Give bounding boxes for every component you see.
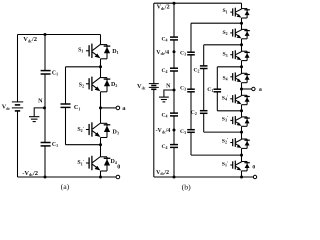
battery Vdc (b) (149, 84, 159, 90)
wire (b) emitter riser S3' (241, 126, 243, 132)
wire (b) C3 column seg1 (190, 23, 192, 52)
wire (b) C2 column seg1 (203, 45, 205, 66)
wire (a) S1' collector riser (100, 145, 102, 157)
wire (b) C3 column seg2 (190, 55, 192, 89)
wire (a) S2 emitter to output (100, 92, 102, 108)
caption (a) (61, 182, 70, 191)
wire (a) dc-bus upper segment (44, 35, 46, 71)
IGBT S3 (b) with anti-parallel diode (230, 50, 250, 60)
IGBT S3' (b) with anti-parallel diode (230, 116, 250, 126)
wire (b) collector riser S4 (241, 67, 243, 74)
label S1 (a) (78, 47, 83, 53)
junction dot j1 (a) (99, 65, 102, 68)
junction dot j2 (b) (240, 43, 243, 46)
node N (a) (38, 97, 46, 109)
wire (b) dc-bus segment 4 (173, 116, 175, 145)
capacitor C3 (b) #1 (180, 50, 195, 56)
wire (b) dc-bus segment 5 (173, 147, 175, 177)
wire (b) clamp wire j1 (191, 22, 242, 24)
label S2 (a) (79, 82, 84, 88)
label S3 (b) (222, 52, 227, 58)
IGBT S1' (b) with anti-parallel diode (230, 161, 250, 171)
IGBT S2' (b) with anti-parallel diode (230, 138, 250, 148)
wire (a) top rail Vdc/2 (18, 34, 101, 36)
wire (b) collector riser S2 (241, 23, 243, 30)
caption (b) (182, 182, 191, 191)
node dot (b) top rail / bus (173, 2, 176, 5)
wire (a) output stub (101, 107, 117, 109)
wire (a) bottom rail (18, 176, 117, 178)
terminal a (a) (116, 105, 126, 112)
svg-text:(b): (b) (182, 182, 191, 191)
junction dot j1 (b) (240, 22, 243, 25)
IGBT S2' (a) with anti-parallel diode D3 (86, 122, 110, 137)
wire (b) bottom rail (154, 176, 253, 178)
capacitor C4 (b) #2 (162, 68, 179, 74)
label S1' (b) (222, 160, 228, 167)
wire (a) S2'-S1' junction segment (100, 138, 102, 145)
wire (a) flying-cap column upper (65, 67, 67, 104)
label Vdc/2 (b) bottom (156, 170, 169, 176)
wire (b) top rail Vdc/2 (154, 2, 242, 4)
wire (a) clamp wire j1 (66, 66, 101, 68)
label S2 (b) (222, 30, 227, 36)
wire (b) C2 column seg3 (203, 113, 205, 132)
wire (a) flying-cap column lower (65, 107, 67, 144)
label S1' (a) (77, 159, 84, 166)
capacitor C3 (b) #3 (180, 129, 195, 135)
label S4 (b) (222, 76, 227, 82)
wire (b) C1 column seg1 (216, 67, 218, 89)
label D3 (a) (113, 130, 119, 136)
wire (a) S2' collector riser (100, 108, 102, 124)
IGBT S1' (a) with anti-parallel diode D4 (86, 156, 110, 171)
svg-text:a: a (259, 87, 262, 93)
node Vdc/4 (b) (156, 50, 175, 56)
capacitor C4 (b) #1 (162, 36, 179, 42)
wire (a) S2 collector riser (100, 67, 102, 78)
terminal 0 (a) (116, 164, 120, 178)
wire (a) left rail upper (17, 35, 19, 102)
node dot (a) top rail / bus (44, 33, 47, 36)
wire (b) collector riser S1 (241, 3, 243, 9)
label D2 (a) (111, 82, 117, 88)
capacitor C1 (b) (207, 87, 221, 93)
junction dot j3 (b) (240, 65, 243, 68)
wire (a) clamp wire j1' (66, 144, 101, 146)
junction dot j1' (a) (99, 143, 102, 146)
wire (a) S1' emitter to bottom rail (100, 171, 102, 177)
svg-text:0: 0 (252, 165, 255, 171)
capacitor C1 (a) lower bus (41, 142, 58, 148)
svg-text:0: 0 (117, 164, 120, 170)
node N (b) (166, 84, 175, 92)
wire (b) left rail lower (153, 89, 155, 177)
wire (b) collector riser S1' (241, 155, 243, 162)
capacitor C1 (a) upper bus (41, 70, 58, 76)
label S2' (b) (222, 137, 228, 144)
wire (b) output stub (242, 88, 252, 90)
junction dot jb (b) (240, 176, 243, 179)
ground (b) (159, 90, 174, 102)
wire (b) clamp wire j3' (217, 110, 241, 112)
terminal 0 (b) (252, 165, 256, 179)
wire (b) clamp wire j2' (204, 131, 242, 133)
capacitor C3 (b) #2 (180, 85, 195, 91)
capacitor C4 (b) #3 (162, 112, 179, 118)
wire (b) dc-bus segment 1 (173, 3, 175, 37)
wire (b) emitter riser S3 (241, 61, 243, 67)
wire (b) emitter riser S4 (241, 83, 243, 89)
label D1 (a) (112, 49, 118, 55)
junction dot (a) bottom rail / switch leg (99, 176, 102, 179)
node -Vdc/4 (b) (156, 128, 176, 134)
wire (b) collector riser S3' (241, 111, 243, 118)
terminal a (b) (252, 87, 262, 93)
capacitor C2 (b) #2 (191, 110, 208, 116)
label S4' (b) (222, 94, 228, 101)
node dot (b) bottom rail / bus (173, 176, 176, 179)
label Vdc source (b) (137, 83, 146, 90)
svg-text:N: N (166, 84, 171, 90)
svg-text:(a): (a) (61, 182, 70, 191)
wire (a) left rail lower (17, 111, 19, 177)
wire (b) left rail upper (153, 3, 155, 83)
capacitor C1 (a) flying (61, 104, 81, 111)
IGBT S4 (b) with anti-parallel diode (230, 72, 250, 82)
label S2' (a) (77, 126, 84, 133)
wire (b) emitter riser S4' (241, 105, 243, 111)
junction dot output a (99, 106, 102, 109)
wire (b) emitter riser S2 (241, 39, 243, 45)
label Vdc/2 (b) top (157, 5, 170, 11)
IGBT S2 (a) with anti-parallel diode D2 (86, 77, 110, 92)
wire (a) collector riser S1 (100, 35, 102, 45)
capacitor C4 (b) #4 (162, 144, 179, 150)
wire (b) dc-bus segment 2 (173, 40, 175, 68)
wire (b) dc-bus segment 3 (173, 71, 175, 113)
label -Vdc/2 (a) (22, 170, 38, 177)
wire (a) dc-bus middle segment (44, 74, 46, 143)
wire (b) clamp wire j1' (191, 154, 242, 156)
wire (b) clamp wire j2 (204, 44, 242, 46)
node dot (a) bottom rail / bus (44, 176, 47, 179)
label S1 (b) (222, 8, 227, 14)
wire (b) C3 column seg4 (190, 132, 192, 155)
wire (b) C2 column seg2 (203, 69, 205, 111)
junction dot j3p (b) (240, 109, 243, 112)
label D4 (a) (111, 159, 117, 165)
wire (b) clamp wire j3 (217, 66, 241, 68)
label S3' (b) (222, 115, 228, 122)
wire (b) emitter riser S1 (241, 18, 243, 23)
wire (b) collector riser S3 (241, 45, 243, 52)
wire (b) collector riser S4' (241, 89, 243, 96)
label Vdc source (a) (2, 104, 11, 111)
wire (b) C1 column seg2 (216, 92, 218, 111)
junction dot ja (b) (240, 88, 243, 91)
IGBT S2 (b) with anti-parallel diode (230, 29, 250, 39)
label Vdc/2 (a) (23, 36, 37, 43)
IGBT S1 (b) with anti-parallel diode (230, 8, 250, 18)
wire (a) S1-S2 junction segment (100, 59, 102, 67)
wire (a) dc-bus lower segment (44, 146, 46, 177)
wire (b) collector riser S2' (241, 132, 243, 139)
junction dot j1p (b) (240, 154, 243, 157)
junction dot j2p (b) (240, 131, 243, 134)
wire (b) emitter riser S1' (241, 171, 243, 177)
wire (b) emitter riser S2' (241, 148, 243, 155)
svg-text:N: N (38, 97, 43, 104)
wire (b) C3 column seg3 (190, 92, 192, 130)
IGBT S4' (b) with anti-parallel diode (230, 94, 250, 104)
IGBT S1 (a) with anti-parallel diode D1 (86, 44, 110, 59)
capacitor C2 (b) #1 (194, 66, 208, 74)
ground (a) (29, 108, 45, 122)
battery Vdc (a) (12, 102, 23, 111)
